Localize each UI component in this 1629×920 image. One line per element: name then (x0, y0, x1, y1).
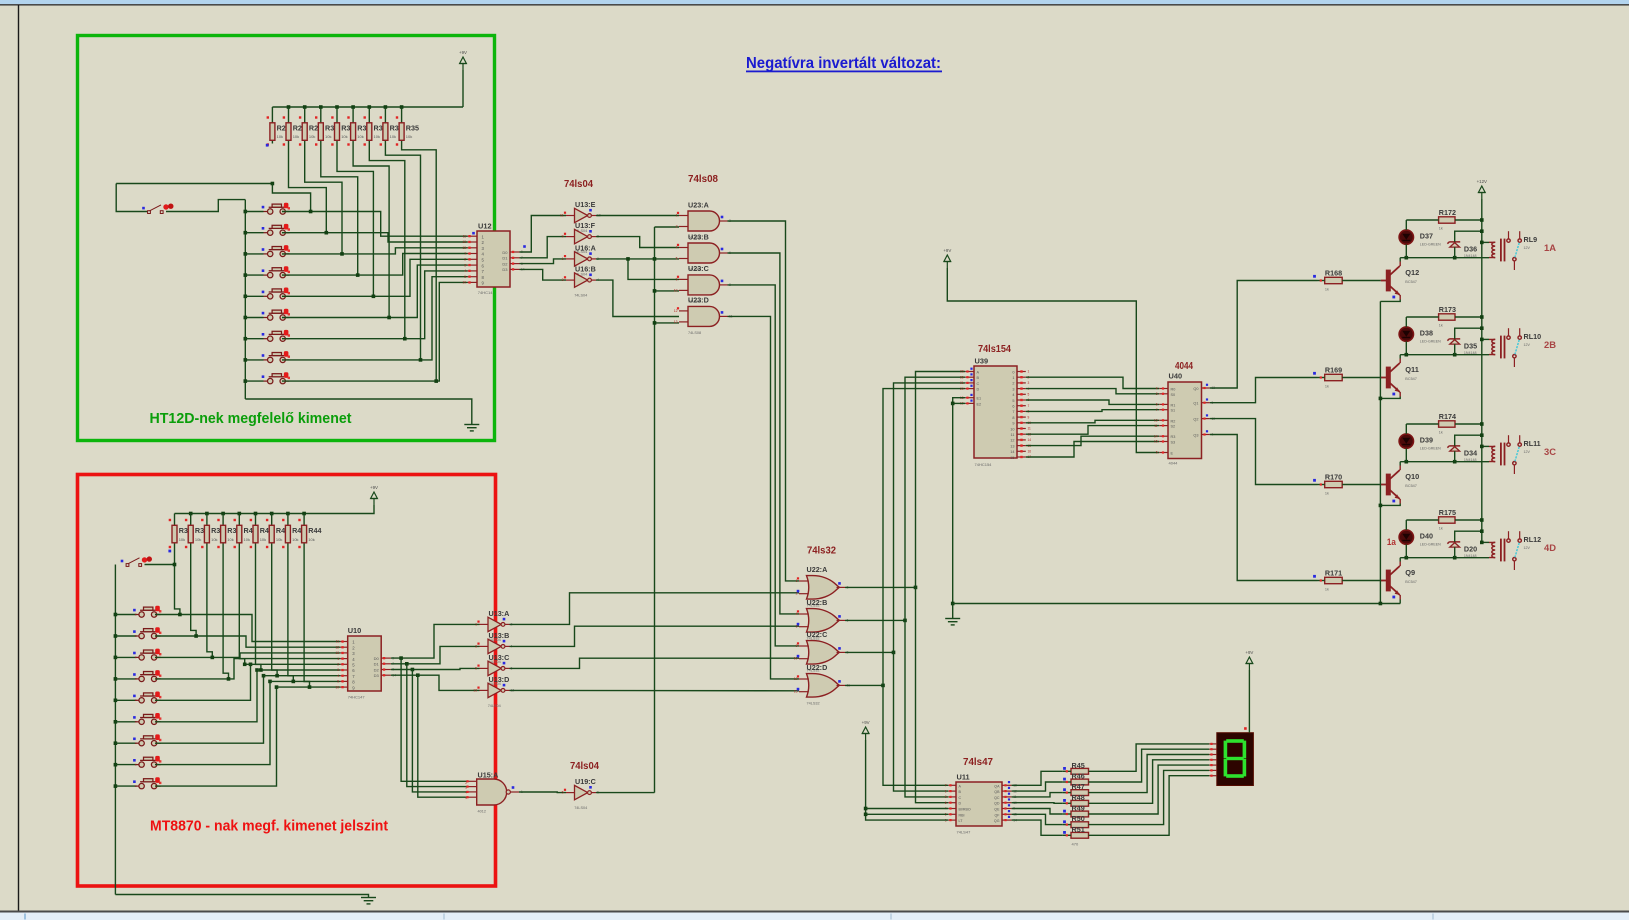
and-gate U23:D (688, 306, 720, 326)
wire emitter to chain (1380, 300, 1400, 302)
wire col6 staircase (353, 144, 389, 318)
wire D2 to U16:A (520, 259, 567, 264)
svg-text:4D: 4D (1544, 543, 1556, 554)
blue origin mark (472, 232, 475, 235)
wire to U23:D low (655, 322, 680, 324)
wire button row 6 to U12 riser (282, 265, 468, 317)
svg-text:9: 9 (1028, 415, 1030, 419)
U12 pin 8 (468, 276, 478, 278)
svg-text:74LS32: 74LS32 (807, 701, 820, 705)
junction (1480, 445, 1484, 449)
wire button row 5 red (115, 699, 136, 701)
wire button row 1 (245, 211, 263, 213)
svg-text:8: 8 (1012, 416, 1014, 420)
button SW17 red box (135, 757, 161, 767)
svg-text:R173: R173 (1439, 305, 1456, 314)
svg-text:D39: D39 (1420, 436, 1433, 445)
U39 pin out 13 (1017, 445, 1026, 447)
wire QC to R47 (1012, 793, 1063, 797)
svg-text:74LS04: 74LS04 (574, 806, 587, 810)
svg-text:14: 14 (1154, 434, 1158, 438)
diode D20 (1447, 542, 1460, 544)
svg-text:12: 12 (335, 645, 339, 649)
wire U39 out 9 to U40 R2 (1026, 420, 1159, 423)
svg-text:5: 5 (676, 257, 678, 261)
svg-text:QD: QD (994, 802, 1000, 806)
wire col1 staircase (272, 184, 310, 212)
wire button row 9 (245, 380, 263, 382)
wire button row 7 (245, 338, 263, 340)
wire to BI (866, 808, 949, 810)
junction (914, 586, 918, 590)
svg-text:7: 7 (1028, 404, 1030, 408)
junction (1480, 218, 1484, 222)
svg-text:7: 7 (1156, 408, 1158, 412)
wire U23:D out down (728, 316, 800, 679)
svg-text:1: 1 (945, 789, 947, 793)
U39 pin out 0 (1017, 371, 1026, 373)
svg-text:Q12: Q12 (1405, 268, 1419, 277)
svg-text:12V: 12V (1524, 246, 1531, 250)
junction (244, 252, 248, 256)
wire row 7 up to bundle (155, 676, 264, 744)
junction (387, 316, 391, 320)
svg-text:MT8870 - nak megf. kimenet jel: MT8870 - nak megf. kimenet jelszint (150, 818, 388, 835)
svg-text:4: 4 (796, 612, 798, 616)
U12 pin D0 (510, 251, 520, 253)
junction (244, 337, 248, 341)
svg-text:QG: QG (994, 819, 1000, 823)
junction (114, 677, 118, 681)
button SW6 green box (264, 310, 290, 320)
wire col3 down red (207, 549, 212, 657)
svg-text:1: 1 (1028, 370, 1030, 374)
junction (244, 273, 248, 277)
svg-text:Q2: Q2 (1193, 418, 1198, 422)
svg-text:5: 5 (1028, 393, 1030, 397)
svg-text:10: 10 (462, 281, 466, 285)
svg-text:U10: U10 (348, 626, 362, 635)
svg-text:13: 13 (462, 246, 466, 250)
junction (1480, 338, 1484, 342)
junction (262, 674, 266, 678)
junction (1480, 529, 1484, 533)
svg-text:U13:E: U13:E (575, 200, 596, 209)
U39 pin out 14 (1017, 450, 1026, 452)
svg-text:R170: R170 (1325, 473, 1342, 482)
svg-text:11: 11 (1028, 427, 1032, 431)
wire collector up (1399, 462, 1401, 466)
svg-text:10: 10 (335, 685, 339, 689)
svg-text:S0: S0 (1171, 393, 1176, 397)
U11 pin QC (1002, 796, 1012, 798)
svg-text:QB: QB (994, 790, 1000, 794)
wire col5 staircase (337, 144, 373, 297)
switch green box (148, 205, 164, 214)
button SW7 green box (264, 331, 290, 341)
svg-text:U16:A: U16:A (575, 243, 596, 252)
svg-text:23: 23 (960, 370, 964, 374)
svg-text:10k: 10k (244, 537, 250, 542)
svg-text:1N4148: 1N4148 (1464, 351, 1477, 355)
svg-text:10k: 10k (341, 134, 347, 139)
wire D0 down to U15 (401, 658, 468, 781)
junction (1405, 460, 1409, 464)
wire col6 down red (256, 549, 261, 670)
svg-text:D36: D36 (1464, 245, 1477, 254)
junction (114, 741, 118, 745)
wire U13:B out (510, 626, 800, 646)
transistor Q10 (1381, 470, 1400, 499)
svg-text:E1: E1 (977, 397, 982, 401)
svg-text:1N4148: 1N4148 (1464, 458, 1477, 462)
svg-text:S2: S2 (1171, 425, 1176, 429)
U10 pin D2 (381, 669, 391, 671)
resistor R46 (1071, 779, 1089, 785)
svg-text:5: 5 (1012, 399, 1014, 403)
U39 pin out 5 (1017, 399, 1026, 401)
svg-text:U12: U12 (478, 222, 492, 231)
svg-text:74ls32: 74ls32 (807, 546, 836, 557)
svg-text:4: 4 (464, 269, 466, 273)
svg-text:U22:D: U22:D (807, 663, 828, 672)
wire row 2 to U10 (155, 636, 340, 647)
inverter U13:C (488, 661, 501, 675)
svg-text:1k: 1k (1325, 288, 1329, 292)
svg-text:3: 3 (464, 263, 466, 267)
svg-text:11: 11 (336, 640, 340, 644)
U40 pin R3 (1159, 435, 1168, 437)
button SW18 red box (135, 779, 161, 789)
svg-text:1a: 1a (1387, 537, 1397, 548)
U10 pin D3 (381, 674, 391, 676)
button SW11 red box (135, 629, 161, 639)
svg-text:7: 7 (1012, 410, 1014, 414)
junction (1453, 256, 1457, 260)
svg-text:20: 20 (960, 387, 964, 391)
svg-text:R171: R171 (1325, 569, 1342, 578)
svg-text:9: 9 (796, 644, 798, 648)
wire fan up to U39 3 (883, 389, 965, 686)
svg-text:10k: 10k (195, 537, 201, 542)
svg-text:+9V: +9V (370, 485, 378, 490)
junction (1480, 229, 1484, 233)
svg-text:RL10: RL10 (1524, 332, 1542, 341)
junction (303, 105, 307, 109)
svg-text:D: D (959, 802, 962, 806)
svg-text:13: 13 (473, 688, 477, 692)
wire QB to R46 (1012, 782, 1063, 791)
wire D1 down to U15 (407, 664, 469, 787)
svg-text:D1: D1 (374, 662, 380, 667)
junction (227, 677, 231, 681)
junction (254, 512, 258, 516)
wire button row 4 (245, 274, 263, 276)
svg-text:10k: 10k (276, 537, 282, 542)
wire col9 down red (304, 549, 309, 687)
wire emitter to ground bus (1399, 600, 1401, 604)
svg-text:U23:D: U23:D (688, 296, 709, 305)
wire E1 E2 tie (953, 402, 966, 404)
svg-text:R48: R48 (1072, 793, 1085, 802)
wire collector up (1399, 558, 1401, 562)
junction (302, 512, 306, 516)
wire toggle feed left (116, 184, 147, 212)
svg-text:10k: 10k (227, 537, 233, 542)
wire QF to R50 (1012, 814, 1063, 824)
wire button bus vertical (244, 200, 246, 399)
svg-text:11: 11 (1011, 433, 1015, 437)
svg-text:10k: 10k (390, 134, 396, 139)
svg-text:3: 3 (475, 644, 477, 648)
display pin 4 (1209, 759, 1217, 761)
relay RL12 (1489, 531, 1521, 570)
wire Q2 to R170 (1210, 419, 1318, 485)
svg-text:D20: D20 (1464, 545, 1477, 554)
inverter U13:F (575, 229, 588, 243)
resistor R40 (238, 514, 240, 526)
svg-text:14: 14 (1010, 450, 1014, 454)
svg-text:LED-GREEN: LED-GREEN (1420, 340, 1441, 344)
svg-text:+9V: +9V (943, 248, 951, 253)
svg-text:13: 13 (1154, 419, 1158, 423)
svg-text:10k: 10k (292, 537, 298, 542)
svg-text:5: 5 (464, 275, 466, 279)
wire U39 out 11 to U40 S2 (1026, 426, 1159, 435)
resistor R36 (174, 514, 176, 526)
svg-text:3C: 3C (1544, 447, 1556, 458)
svg-text:74ls04: 74ls04 (564, 179, 593, 190)
U11 pin BI/RBO (948, 808, 956, 810)
wire U23:C out down (728, 285, 800, 646)
svg-text:U15:A: U15:A (478, 770, 499, 779)
wire U23:A out down (728, 221, 800, 581)
svg-text:2: 2 (337, 663, 339, 667)
junction (1480, 315, 1484, 319)
svg-text:2: 2 (945, 795, 947, 799)
junction (351, 105, 355, 109)
wire bundle row 7 (264, 675, 341, 677)
wire U22 out fan 2 (845, 651, 894, 653)
svg-text:10k: 10k (309, 134, 315, 139)
svg-text:U23:B: U23:B (688, 232, 709, 241)
svg-text:4044: 4044 (1175, 361, 1193, 372)
svg-text:1: 1 (796, 579, 798, 583)
U39 pin out 2 (1017, 382, 1026, 384)
resistor R37 (190, 514, 192, 526)
wire feedback vertical (654, 227, 656, 793)
wire fan down to U11 2 (894, 652, 949, 791)
U40 pin R1 (1159, 403, 1168, 405)
svg-text:U22:A: U22:A (807, 565, 828, 574)
button SW4 green box (264, 268, 290, 278)
wire D0 to U13:E (520, 216, 567, 253)
svg-text:1: 1 (464, 252, 466, 256)
U12 pin 9 (468, 281, 478, 283)
svg-text:BI/RBO: BI/RBO (959, 808, 971, 812)
wire U16:B out to U23:D (596, 280, 679, 316)
U39 pin C (965, 382, 974, 384)
U11 pin QG (1002, 819, 1012, 821)
power +9V display (1246, 657, 1253, 670)
button SW3 green box (264, 247, 290, 257)
wire button row 8 (245, 359, 263, 361)
wire bundle row 8 (270, 680, 340, 682)
inverter U16:A (575, 252, 588, 266)
U39 pin A (965, 371, 974, 373)
svg-text:2: 2 (676, 225, 678, 229)
svg-text:12: 12 (794, 677, 798, 681)
svg-text:U13:D: U13:D (489, 675, 510, 684)
button SW16 red box (135, 736, 161, 746)
junction (244, 316, 248, 320)
U11 pin A (948, 784, 956, 786)
svg-text:11: 11 (560, 214, 564, 218)
svg-text:5: 5 (475, 666, 477, 670)
wire to U23:C low (655, 290, 680, 292)
wire row 8 up to bundle (155, 681, 270, 764)
svg-text:Q11: Q11 (1405, 365, 1419, 374)
svg-text:12V: 12V (1524, 450, 1531, 454)
U11 pin RBI (948, 813, 956, 815)
svg-text:LED-GREEN: LED-GREEN (1420, 447, 1441, 451)
led D39 (1399, 434, 1413, 448)
svg-text:BC547: BC547 (1405, 484, 1417, 488)
svg-text:U13:B: U13:B (489, 631, 510, 640)
junction (400, 105, 404, 109)
svg-text:U23:C: U23:C (688, 264, 709, 273)
wire button row 5 (245, 295, 263, 297)
svg-text:9: 9 (1012, 422, 1014, 426)
junction (356, 273, 360, 277)
wire U39 out 7 to U40 S1 (1026, 410, 1159, 412)
bottom scrollbar strip (0, 913, 1629, 920)
junction (1405, 556, 1409, 560)
svg-text:Q0: Q0 (1193, 387, 1198, 391)
wire Q0 to R168 (1210, 281, 1318, 389)
junction (419, 358, 423, 362)
junction (243, 663, 247, 667)
wire U13:C out (510, 658, 800, 668)
wire +12V rail (1481, 199, 1483, 542)
wire col1 down red (175, 549, 180, 615)
wire U22 out fan 1 (845, 619, 905, 621)
ground middle (945, 619, 960, 625)
resistor R48 (1071, 800, 1089, 806)
svg-text:+9V: +9V (862, 720, 870, 725)
svg-text:12: 12 (462, 240, 466, 244)
resistor R49 (1071, 811, 1089, 817)
junction (114, 656, 118, 660)
resistor R34 (384, 107, 386, 123)
inverter U13:D (488, 683, 501, 697)
U10 pin D0 (381, 657, 391, 659)
wire U22 out fan 3 (845, 684, 883, 686)
junction (189, 512, 193, 516)
junction (259, 668, 263, 672)
svg-text:3: 3 (1012, 387, 1014, 391)
svg-text:74ls04: 74ls04 (570, 761, 599, 772)
junction (340, 252, 344, 256)
wire branch to U23:C up (628, 259, 679, 280)
wire col9 staircase (402, 144, 437, 382)
svg-text:12V: 12V (1524, 343, 1531, 347)
junction (211, 656, 215, 660)
svg-text:470: 470 (1072, 842, 1079, 847)
svg-text:R49: R49 (1072, 804, 1085, 813)
svg-text:Negatívra invertált változat:: Negatívra invertált változat: (746, 55, 941, 72)
svg-text:12: 12 (1010, 439, 1014, 443)
svg-text:1k: 1k (1439, 527, 1443, 531)
U12 pin D3 (510, 268, 520, 270)
wire button row 7 to U12 riser (282, 271, 468, 339)
wire fan up to U39 0 (916, 372, 966, 588)
junction (1379, 602, 1383, 606)
junction (434, 379, 438, 383)
wire bundle row 6 (257, 669, 340, 671)
resistor R35 (401, 107, 403, 123)
display pin 7 (1209, 775, 1217, 777)
wire resistor top bus (272, 106, 463, 108)
svg-text:6: 6 (1156, 403, 1158, 407)
wire QE to R49 (1012, 809, 1063, 815)
resistor R31 (336, 107, 338, 123)
junction (384, 105, 388, 109)
U10 pin 6 (340, 669, 347, 671)
svg-text:+12V: +12V (1477, 179, 1487, 184)
junction (114, 613, 118, 617)
button SW2 green box (264, 225, 290, 235)
svg-text:U39: U39 (975, 357, 989, 366)
svg-text:R51: R51 (1072, 825, 1085, 834)
svg-text:12V: 12V (1524, 546, 1531, 550)
U12 pin 6 (468, 264, 478, 266)
svg-text:74HC14: 74HC14 (478, 290, 493, 295)
wire button row 2 (245, 232, 263, 234)
wire +9V to LT (866, 740, 949, 820)
svg-text:4: 4 (1156, 387, 1158, 391)
svg-text:13: 13 (335, 651, 339, 655)
button SW9 green box (264, 374, 290, 384)
svg-text:U23:A: U23:A (688, 200, 709, 209)
wire button row 6 (245, 317, 263, 319)
wire emitter chain vertical (1379, 301, 1381, 603)
svg-text:3: 3 (1156, 392, 1158, 396)
button SW10 red box (135, 607, 161, 617)
junction (1379, 397, 1383, 401)
svg-text:3: 3 (337, 668, 339, 672)
junction (114, 634, 118, 638)
wire col4 down red (223, 549, 228, 679)
U12 pin 1 (468, 235, 478, 237)
wire button row 2 red (115, 635, 136, 637)
wire row 5 up to bundle (155, 664, 251, 700)
junction (1480, 422, 1484, 426)
svg-text:10: 10 (674, 288, 678, 292)
svg-text:10k: 10k (308, 537, 314, 542)
and-gate U23:A (688, 211, 720, 231)
junction (399, 656, 403, 660)
svg-text:BC547: BC547 (1405, 280, 1417, 284)
or-gate U22:C (807, 641, 840, 665)
U10 pin 7 (340, 675, 347, 677)
U39 pin E1 (965, 397, 974, 399)
wire emitter to chain (1380, 504, 1400, 506)
svg-text:16: 16 (1028, 450, 1032, 454)
junction (626, 257, 630, 261)
button SW13 red box (135, 672, 161, 682)
junction (275, 685, 279, 689)
